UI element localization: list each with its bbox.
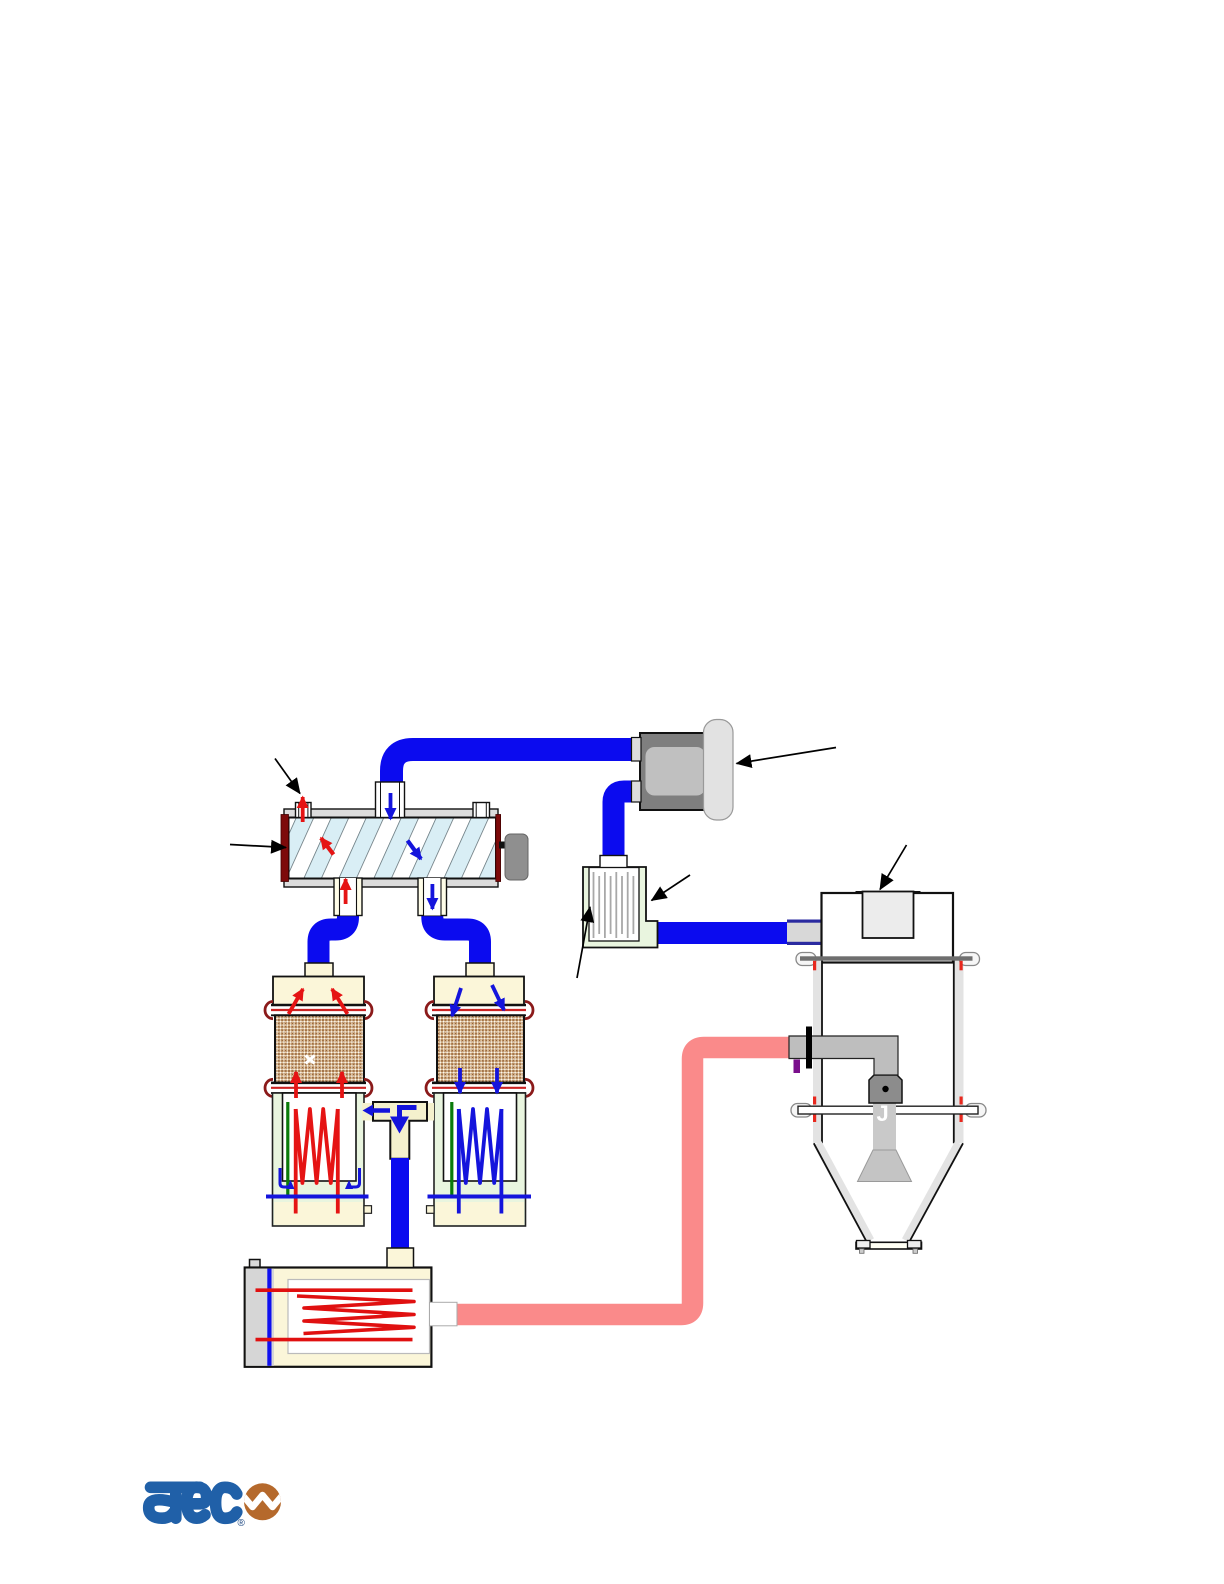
svg-text:J: J — [877, 1101, 889, 1126]
svg-text:®: ® — [238, 1518, 246, 1529]
